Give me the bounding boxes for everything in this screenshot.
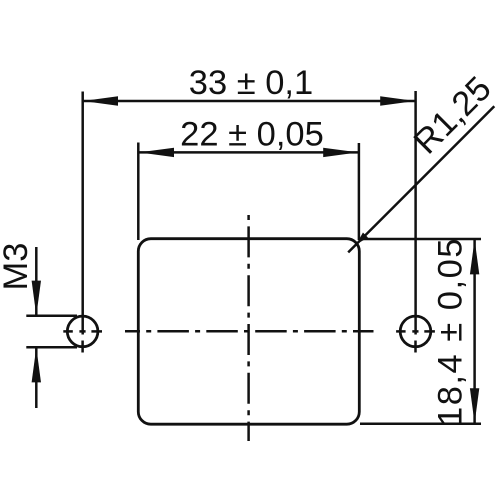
dimension 22 left arrowhead xyxy=(139,148,174,157)
dimension 33 right arrowhead xyxy=(380,96,415,105)
M3 dimension tick top xyxy=(26,315,77,318)
svg-text:M3: M3 xyxy=(0,243,35,291)
dimension 18,4 bottom arrowhead xyxy=(470,388,479,423)
M3 lower arrowhead (pointing up) xyxy=(32,347,41,382)
dimension 33 left arrowhead xyxy=(83,96,118,105)
svg-text:22 ± 0,05: 22 ± 0,05 xyxy=(180,115,324,153)
dimension 18,4 line xyxy=(473,240,476,424)
dimension 22 right arrowhead xyxy=(323,148,358,157)
dimension 33 extension line left xyxy=(81,92,84,335)
svg-text:18,4 ± 0,05: 18,4 ± 0,05 xyxy=(432,237,470,426)
M3 dimension tick bottom xyxy=(26,346,77,349)
dimension 18,4 extension line bottom xyxy=(360,422,481,425)
left hole center cross xyxy=(63,331,102,352)
M3 upper arrowhead (pointing down) xyxy=(32,281,41,316)
left hole M3 circle xyxy=(67,316,98,347)
rounded rectangle cutout outline xyxy=(138,239,359,425)
radius leader arrowhead xyxy=(356,233,368,245)
dimension 22 line xyxy=(139,151,358,154)
dimension 18,4 extension line top xyxy=(360,238,481,241)
right hole circle xyxy=(400,316,431,347)
horizontal centerline xyxy=(125,330,374,333)
right hole center cross xyxy=(396,331,435,352)
dimension 33 line xyxy=(83,100,415,103)
dimension 22 extension line left xyxy=(137,143,140,241)
svg-text:33 ± 0,1: 33 ± 0,1 xyxy=(189,64,313,102)
dimension 18,4 top arrowhead xyxy=(470,239,479,274)
M3 dimension line upper segment xyxy=(35,247,38,316)
dimension 33 extension line right xyxy=(414,91,417,335)
vertical centerline xyxy=(247,215,250,441)
M3 dimension line lower segment xyxy=(35,347,38,408)
radius leader line R1,25 xyxy=(348,106,494,252)
dimension 22 extension line right xyxy=(358,143,361,240)
